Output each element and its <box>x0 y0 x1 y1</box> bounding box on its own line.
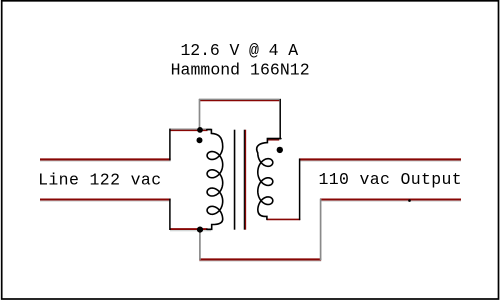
svg-text:Line 122 vac: Line 122 vac <box>38 171 161 190</box>
svg-text:110 vac Output: 110 vac Output <box>319 170 462 189</box>
svg-text:12.6 V @ 4 A: 12.6 V @ 4 A <box>181 41 299 60</box>
svg-text:Hammond 166N12: Hammond 166N12 <box>171 60 310 79</box>
